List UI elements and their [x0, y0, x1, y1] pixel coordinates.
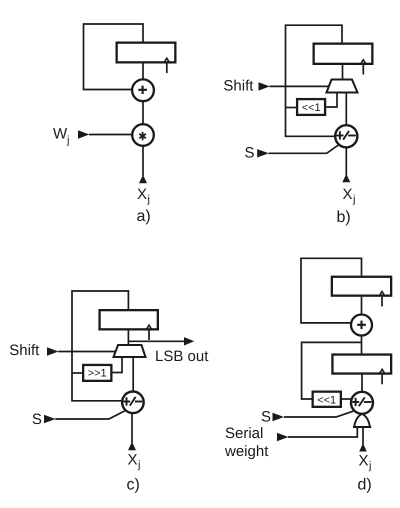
clock caret a	[164, 58, 170, 63]
clock caret d1	[379, 292, 385, 297]
svg-text:Shift: Shift	[223, 78, 254, 95]
shifter box c	[83, 365, 111, 381]
svg-text:weight: weight	[224, 443, 269, 460]
wire Xj input c	[131, 413, 133, 443]
clock caret b	[360, 60, 366, 65]
shifter box b	[297, 99, 325, 115]
svg-text:j: j	[352, 194, 355, 206]
svg-text:Serial: Serial	[225, 425, 263, 442]
wire Serial weight input d	[288, 427, 357, 437]
wire register b to mux	[342, 65, 344, 80]
adder circle d	[351, 315, 372, 336]
wire register d2 to addsub	[361, 375, 363, 392]
wire shifter d to addsub	[342, 398, 352, 400]
svg-text:X: X	[359, 453, 369, 470]
wire feedback loop a	[84, 24, 144, 90]
register d2	[332, 355, 391, 374]
register d1	[332, 277, 391, 296]
svg-text:j: j	[368, 460, 371, 472]
svg-text:S: S	[245, 145, 255, 162]
wire adder a to multiplier	[142, 101, 144, 125]
wire clock stub b	[362, 65, 364, 75]
svg-text:<<1: <<1	[317, 395, 336, 407]
wire clock stub d1	[381, 297, 383, 307]
svg-text:X: X	[128, 452, 138, 469]
register b	[314, 44, 373, 64]
svg-text:<<1: <<1	[302, 102, 321, 114]
wire Xj input a	[142, 146, 144, 176]
wire feedback loop d1	[301, 258, 362, 323]
svg-text:X: X	[343, 186, 353, 203]
svg-text:>>1: >>1	[88, 368, 107, 380]
wire adder d to register d2	[361, 336, 363, 354]
svg-text:LSB out: LSB out	[155, 348, 209, 365]
multiplier circle a	[132, 124, 154, 146]
svg-text:X: X	[137, 186, 147, 203]
wire clock stub d2	[381, 375, 383, 385]
adder circle a	[132, 79, 154, 101]
svg-text:b): b)	[337, 209, 351, 226]
wire feedback loop b	[286, 25, 343, 136]
svg-text:S: S	[32, 411, 42, 428]
svg-text:W: W	[53, 126, 68, 143]
wire clock stub c	[148, 331, 150, 341]
wire feedback loop c	[72, 291, 128, 401]
svg-text:c): c)	[127, 477, 140, 494]
wire S input b	[269, 145, 340, 154]
wire register d1 to adder	[361, 297, 363, 315]
wire shifter c to mux	[113, 357, 123, 373]
wire mux c to addsub	[132, 357, 134, 392]
wire Xj input d	[362, 428, 364, 445]
svg-text:a): a)	[137, 208, 151, 225]
wire S input d	[284, 411, 354, 417]
wire register a to adder	[142, 64, 144, 81]
svg-text:S: S	[261, 409, 271, 426]
add/sub circle c	[122, 392, 144, 414]
clock caret d2	[379, 369, 385, 374]
mux trapezoid b	[327, 80, 358, 93]
serial input dome d	[354, 414, 370, 427]
wire mux b to addsub	[345, 93, 347, 127]
wire S input c	[55, 411, 125, 419]
wire Shift input b	[270, 85, 332, 87]
svg-text:j: j	[66, 135, 69, 147]
wire feedback loop d2	[302, 342, 362, 399]
wire Xj input b	[345, 147, 347, 176]
shifter box d	[313, 392, 341, 407]
register c	[100, 310, 158, 329]
svg-text:j: j	[147, 194, 150, 206]
mux trapezoid c	[114, 345, 146, 357]
wire loop to shifter c	[72, 372, 83, 374]
clock caret c	[146, 325, 152, 330]
wire register c to mux	[127, 331, 129, 347]
wire LSB out	[128, 340, 184, 342]
wire shifter b to mux	[326, 93, 337, 108]
wire Wj input a	[89, 134, 133, 136]
svg-text:j: j	[137, 459, 140, 471]
svg-text:Shift: Shift	[9, 342, 40, 359]
wire Shift input c	[58, 351, 117, 353]
register a	[117, 43, 176, 63]
svg-text:d): d)	[358, 477, 372, 494]
wire loop to shifter b	[286, 107, 297, 109]
wire clock stub a	[166, 64, 168, 74]
add/sub circle b	[335, 125, 357, 147]
add/sub circle d	[351, 392, 373, 414]
